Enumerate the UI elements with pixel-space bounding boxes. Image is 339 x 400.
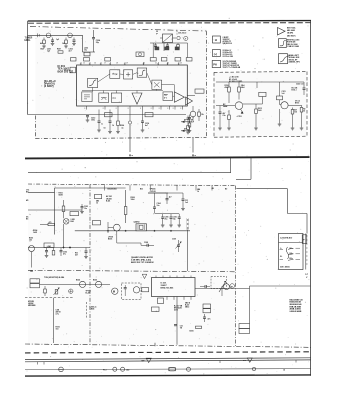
value box L312 <box>30 284 40 288</box>
node junction circle <box>128 121 131 124</box>
node motor M2 <box>230 284 235 289</box>
svg-text:4P-: 4P- <box>26 199 29 202</box>
svg-text:27p: 27p <box>173 218 176 220</box>
svg-text:C308: C308 <box>144 242 148 244</box>
transistor T304 <box>79 281 85 287</box>
svg-text:1k05: 1k05 <box>33 232 37 234</box>
svg-text:B31: B31 <box>140 188 143 190</box>
svg-text:8: 8 <box>128 108 129 110</box>
svg-text:1u: 1u <box>192 119 194 121</box>
svg-text:4k7: 4k7 <box>40 42 43 45</box>
resistor R303 <box>48 223 55 225</box>
svg-text:19: 19 <box>126 63 128 65</box>
capacitor C222 <box>256 82 258 88</box>
wire mid row <box>28 247 44 249</box>
capacitor C221 column <box>279 82 281 96</box>
capacitor C204 <box>93 30 95 38</box>
trimmer C309 <box>177 244 180 246</box>
op-amp mixer block1 <box>110 70 120 79</box>
svg-text:47n: 47n <box>208 318 211 321</box>
op-amp demodulator block <box>88 78 98 87</box>
svg-text:(2 N437]: (2 N437] <box>44 85 54 88</box>
svg-text:C6: C6 <box>104 128 106 130</box>
node switch side box <box>302 235 307 244</box>
svg-text:4B0 34A0: 4B0 34A0 <box>287 29 295 32</box>
wire bottom block top edge <box>55 187 126 189</box>
capacitor C305 <box>162 214 164 217</box>
wire osc rail top <box>155 213 180 215</box>
wire IC output link <box>162 84 175 86</box>
wire top dashed border <box>28 22 311 25</box>
svg-text:C305: C305 <box>165 217 169 219</box>
wire switch left pins <box>280 248 284 250</box>
op-amp multiplier block <box>152 80 162 89</box>
svg-text:BWD-730-856: BWD-730-856 <box>161 288 175 290</box>
svg-text:B325: B325 <box>93 280 97 282</box>
op-amp af block <box>82 92 92 102</box>
svg-text:1: 1 <box>167 63 168 65</box>
svg-text:3B NP4: 3B NP4 <box>287 32 293 35</box>
wire right riser <box>249 286 251 324</box>
wire switch divider <box>279 242 304 244</box>
wire X301 column down <box>63 224 65 244</box>
op-amp limiter block <box>137 68 147 77</box>
capacitor C220 <box>219 106 221 112</box>
svg-text:8: 8 <box>103 108 104 110</box>
svg-text:1u0: 1u0 <box>282 93 285 95</box>
value box L305 <box>142 288 149 292</box>
node motor symbol <box>112 288 118 294</box>
capacitor C210 box <box>175 58 181 61</box>
wire dashed drop left <box>155 31 157 35</box>
capacitor C212 <box>86 115 89 117</box>
wire long vertical bl <box>53 298 55 343</box>
op-amp deemphasis block <box>99 93 109 102</box>
wire switch contacts <box>288 248 294 249</box>
wire top border line <box>28 20 311 22</box>
inductor L209 box <box>259 92 266 96</box>
svg-text:C223 1n0: C223 1n0 <box>296 84 303 86</box>
resistor R212 <box>228 110 230 115</box>
capacitor C310 <box>174 324 177 326</box>
svg-text:23: 23 <box>180 63 182 65</box>
svg-text:10u: 10u <box>84 50 87 52</box>
svg-text:470: 470 <box>49 221 52 224</box>
capacitor C308 horizontal <box>146 244 148 247</box>
node IC201 bottom pins <box>86 106 88 110</box>
wire bottom module dashed right <box>235 186 237 347</box>
svg-text:1: 1 <box>124 63 125 65</box>
svg-text:C40: C40 <box>126 369 129 372</box>
transistor T302 <box>113 224 120 231</box>
capacitor C311 <box>124 285 126 288</box>
svg-text:QUARZ: QUARZ <box>134 220 140 223</box>
wire tuner input <box>28 34 83 36</box>
value box L309 <box>239 329 250 334</box>
svg-text:18: 18 <box>116 63 118 65</box>
svg-text:16: 16 <box>94 63 96 65</box>
capacitor C303 <box>81 204 83 207</box>
svg-text:10k: 10k <box>29 240 32 242</box>
wire dashed vertical stub <box>86 302 88 319</box>
wire module border left dashed <box>35 116 37 139</box>
capacitor C205 block <box>163 34 173 43</box>
svg-text:27p: 27p <box>165 218 168 220</box>
wire tuning row <box>150 42 182 44</box>
svg-text:R204: R204 <box>120 124 124 127</box>
wire row B <box>44 247 90 249</box>
wire supply rail <box>216 81 264 83</box>
wire collector out <box>243 103 263 105</box>
resistor R202 <box>65 38 67 41</box>
node legend triangle symbol <box>278 28 286 36</box>
wire to border <box>250 285 311 287</box>
capacitor C209 box <box>161 58 167 61</box>
node IC301 bottom pins <box>166 297 168 300</box>
node dashed service box <box>211 277 227 289</box>
value box L311 <box>30 279 40 283</box>
capacitor C313 <box>204 285 206 288</box>
capacitor C211 box <box>186 58 192 61</box>
svg-text:M: M <box>113 290 115 294</box>
wire dashed stub <box>157 31 159 35</box>
svg-text:1n: 1n <box>101 124 103 126</box>
op-amp mute triangle <box>132 93 142 104</box>
svg-text:TON (MONITOR) B-0B4: TON (MONITOR) B-0B4 <box>44 276 65 279</box>
svg-text:1k0: 1k0 <box>56 329 59 331</box>
node connector crosses <box>186 219 189 222</box>
transistor T301 <box>29 246 35 252</box>
svg-text:NB23MB: NB23MB <box>28 305 36 307</box>
capacitor C201 <box>52 38 54 41</box>
svg-text:56k0: 56k0 <box>241 87 245 89</box>
node mounting hole A <box>59 367 64 372</box>
svg-text:4n7: 4n7 <box>69 50 72 53</box>
wire right module dashed border <box>214 71 307 74</box>
svg-text:1n0: 1n0 <box>185 202 188 204</box>
svg-text:H: H <box>215 38 217 42</box>
op-amp adder block <box>124 70 133 79</box>
node mounting hole C <box>121 367 125 371</box>
node tuning point circle <box>177 36 180 39</box>
resistor R308 <box>44 286 46 289</box>
inductor L208 box <box>195 89 204 93</box>
wire board outline dashed top <box>30 27 207 32</box>
node IC201 top pins <box>80 62 82 65</box>
node switch contact bracket <box>286 247 288 259</box>
wire coupling row <box>83 51 96 53</box>
transistor T204 <box>281 102 288 109</box>
resistor R215 <box>301 105 303 107</box>
svg-text:1k: 1k <box>112 125 114 127</box>
resistor R307 <box>148 192 183 194</box>
node mounting hole B <box>113 367 117 371</box>
svg-text:B24: B24 <box>71 220 74 223</box>
svg-text:1p0: 1p0 <box>47 51 50 53</box>
svg-text:P13: P13 <box>103 370 106 372</box>
value box L306 <box>203 304 211 308</box>
svg-text:4n7: 4n7 <box>145 124 148 127</box>
wire bottom module dashed mid <box>89 184 91 344</box>
svg-text:C309: C309 <box>172 239 176 241</box>
node signal arrow AF1 <box>181 121 190 123</box>
svg-text:1k0: 1k0 <box>294 112 297 114</box>
node switch connector edge <box>305 234 307 270</box>
wire pcb top edge2 <box>25 360 311 362</box>
wire module border bottom dashed <box>36 137 207 138</box>
capacitor C314 <box>204 314 206 317</box>
svg-text:8: 8 <box>159 108 160 110</box>
wire IC301 down <box>176 297 178 345</box>
wire ic out right <box>195 288 250 290</box>
svg-text:B324: B324 <box>76 279 80 282</box>
svg-text:C306: C306 <box>173 217 177 219</box>
svg-text:8: 8 <box>140 108 141 110</box>
node circle plus <box>69 289 73 293</box>
node signal arrow AF2 <box>181 130 190 132</box>
capacitor C317 <box>166 193 168 199</box>
svg-text:+12V-B: +12V-B <box>150 191 157 193</box>
svg-text:40B -TA00k: 40B -TA00k <box>280 265 289 268</box>
wire T204 links <box>280 104 281 106</box>
wire thick separator <box>25 157 310 158</box>
value box L308 <box>239 324 250 329</box>
wire dashed stub bl <box>25 296 73 298</box>
resistor R203 <box>177 43 179 45</box>
wire pcb top edge <box>25 358 311 360</box>
node osc rail junctions <box>107 230 108 231</box>
svg-text:BT03: BT03 <box>295 103 299 105</box>
svg-text:B-40: B-40 <box>106 200 110 203</box>
node flow arrow <box>142 274 147 278</box>
node switch box outline <box>279 234 304 270</box>
svg-text:1: 1 <box>80 63 81 65</box>
resistor R206 <box>198 109 200 112</box>
wire row supply <box>61 209 82 211</box>
wire left border <box>27 21 29 115</box>
wire base in <box>216 105 235 107</box>
node gnd R201 <box>43 44 45 46</box>
svg-text:0V311=0 V40: 0V311=0 V40 <box>223 55 234 58</box>
wire tuning feed left <box>152 43 154 57</box>
svg-text:B+4V: B+4V <box>86 292 91 295</box>
wire osc rail <box>75 230 190 232</box>
svg-text:8: 8 <box>116 108 117 110</box>
value box L303 <box>93 221 101 225</box>
node gnd row right <box>278 123 282 125</box>
resistor R312 <box>196 326 202 328</box>
op-amp IC201 outline <box>77 65 188 106</box>
wire IC inner bus2 <box>147 73 152 85</box>
svg-text:47u: 47u <box>63 253 66 256</box>
svg-text:3.58 MHz (PAL 4.43): 3.58 MHz (PAL 4.43) <box>131 258 151 261</box>
svg-text:17: 17 <box>104 63 106 65</box>
svg-text:10k0: 10k0 <box>131 199 135 201</box>
wire crossing stubs <box>103 185 105 190</box>
capacitor C206 <box>155 43 157 45</box>
wire bus line1 <box>28 172 231 174</box>
svg-text:2AB0/EL NPO: 2AB0/EL NPO <box>289 61 301 64</box>
svg-text:A-TASTE-B10: A-TASTE-B10 <box>280 236 292 239</box>
resistor R306 tall <box>125 190 127 207</box>
wire feed line <box>28 114 187 116</box>
svg-text:4k7: 4k7 <box>75 254 78 257</box>
capacitor C215 <box>187 116 189 119</box>
node legend box plus <box>213 50 221 57</box>
node test point T circle <box>184 36 188 40</box>
svg-text:B 55-1: B 55-1 <box>292 90 297 92</box>
resistor R204 <box>117 121 120 126</box>
svg-text:1: 1 <box>143 63 144 65</box>
node mounting hole D <box>187 367 191 371</box>
value box L302 <box>70 212 79 216</box>
svg-text:B210: B210 <box>190 331 194 333</box>
wire bus line2 <box>236 178 251 180</box>
value box L307 <box>203 309 211 313</box>
resistor R214 <box>292 108 294 110</box>
svg-text:4k70: 4k70 <box>174 309 178 312</box>
capacitor C304 <box>154 193 156 207</box>
wire bottom block left edge <box>54 188 56 235</box>
resistor R210 <box>228 82 230 87</box>
node input tick <box>37 33 39 37</box>
svg-text:R207: R207 <box>57 49 61 51</box>
transistor X301 <box>63 219 69 225</box>
svg-text:1k00: 1k00 <box>258 110 262 112</box>
svg-text:PH: PH <box>213 62 217 66</box>
svg-text:C0n: C0n <box>223 115 226 117</box>
transistor T306 <box>224 284 230 290</box>
value box L310 <box>95 194 102 198</box>
transistor T303 <box>133 287 139 293</box>
svg-text:1: 1 <box>89 63 90 65</box>
wire pcb dashed line <box>25 352 311 353</box>
node legend box H <box>213 36 221 43</box>
trimmer R309 arrow <box>55 290 58 295</box>
resistor R302 <box>63 200 65 206</box>
wire cross stub <box>187 230 189 272</box>
wire left stub2 <box>28 209 61 211</box>
svg-text:100n: 100n <box>91 120 95 122</box>
wire top rail right box <box>264 81 304 83</box>
op-amp ref block <box>163 92 173 101</box>
wire IC inner vertical drops <box>92 88 94 92</box>
svg-text:+VT03: +VT03 <box>237 116 242 118</box>
svg-text:1k0: 1k0 <box>62 43 65 45</box>
inductor L207 box <box>145 113 153 117</box>
capacitor C302 <box>60 248 62 251</box>
svg-text:BGR 353 737 2 BGR02: BGR 353 737 2 BGR02 <box>131 262 154 264</box>
node mounting hole E <box>252 367 255 370</box>
node slot hole <box>169 368 176 371</box>
capacitor C208 box <box>150 58 156 61</box>
svg-text:C6: C6 <box>192 118 194 120</box>
svg-text:B04: B04 <box>41 48 44 51</box>
svg-text:4.7u: 4.7u <box>56 313 60 316</box>
capacitor C316 <box>182 193 184 199</box>
svg-text:EING.: EING. <box>25 40 32 42</box>
svg-text:1k: 1k <box>197 191 199 193</box>
capacitor C217 <box>98 110 100 122</box>
svg-text:8: 8 <box>173 108 174 110</box>
svg-text:B1: B1 <box>26 219 28 221</box>
svg-text:1.B04: 1.B04 <box>90 308 95 311</box>
svg-text:(+): (+) <box>214 52 217 56</box>
wire drop af <box>192 137 194 153</box>
svg-text:8: 8 <box>151 108 152 110</box>
transistor T201 <box>46 33 51 38</box>
wire tp stub <box>148 192 168 194</box>
resistor R207 <box>58 51 63 53</box>
capacitor C216 <box>189 115 191 118</box>
transistor T203 <box>235 102 243 110</box>
node legend ramp box <box>279 54 288 64</box>
capacitor C306 <box>170 214 172 217</box>
resistor R213 <box>255 104 257 109</box>
node strip tick A <box>154 343 156 346</box>
resistor R211 <box>238 82 240 87</box>
wire bottom module dash-dot bottom <box>25 344 311 347</box>
node MP marker triangle <box>146 358 151 362</box>
resistor R201 <box>43 38 45 41</box>
node strip tick C <box>219 361 221 364</box>
svg-text:10n: 10n <box>84 208 87 210</box>
inductor L204 box <box>84 58 90 61</box>
capacitor C223 <box>303 87 306 89</box>
capacitor C214 <box>142 110 144 122</box>
node output circle <box>190 111 196 117</box>
op-amp output buffer triangle <box>174 92 184 102</box>
wire right border <box>310 21 312 376</box>
node ms marker triangle <box>247 358 252 362</box>
inductor L206 box <box>105 113 113 117</box>
wire tuning drop right <box>187 43 189 57</box>
svg-text:QUARZ-OSZILLATOR: QUARZ-OSZILLATOR <box>131 256 153 259</box>
op-amp oscillator block <box>111 93 121 102</box>
svg-text:TEST PT +TUNER AB: TEST PT +TUNER AB <box>223 66 241 69</box>
wire T301 emitter down <box>31 252 33 268</box>
wire to IC input <box>82 35 84 52</box>
svg-text:10n: 10n <box>157 205 160 207</box>
node IC301 top pins <box>155 276 157 278</box>
wire mute line down <box>129 124 131 152</box>
transformer T1 box <box>136 52 144 57</box>
svg-text:0B12: 0B12 <box>185 307 189 309</box>
wire left stub1 <box>28 191 55 193</box>
inductor L203 box <box>71 58 77 61</box>
node IC301 pin box <box>158 298 164 304</box>
node legend box phono <box>212 61 220 68</box>
svg-text:0-B00-B 400B: 0-B00-B 400B <box>290 310 303 313</box>
svg-text:1: 1 <box>100 63 101 65</box>
svg-text:1k: 1k <box>96 203 98 205</box>
node legend s-curve box <box>279 39 287 48</box>
svg-text:B0: B0 <box>225 189 227 191</box>
svg-text:41k5: 41k5 <box>225 86 229 89</box>
wire module border right dashed <box>206 31 208 137</box>
transistor T202 <box>68 33 73 38</box>
capacitor C202 <box>73 38 75 41</box>
transistor T305 <box>96 281 102 287</box>
capacitor C307 <box>178 214 180 217</box>
value box L304 <box>152 307 160 311</box>
crystal Y301 <box>136 224 147 231</box>
svg-text:B306: B306 <box>108 239 112 241</box>
wire bottom module dashed top <box>28 184 236 186</box>
svg-text:33: 33 <box>303 111 305 113</box>
trimmer R311 <box>219 281 226 292</box>
capacitor C207 <box>167 43 169 45</box>
